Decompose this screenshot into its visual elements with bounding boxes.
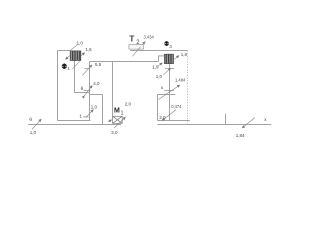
wire rail upper <box>130 50 187 52</box>
svg-text:3: 3 <box>169 44 172 50</box>
wire bus right <box>158 124 272 126</box>
resistor R2 <box>164 54 173 63</box>
wire M1 feeder <box>112 62 114 117</box>
arrow into M1 left <box>108 120 112 122</box>
source PHI1 <box>62 63 71 72</box>
transformer T2 <box>129 34 144 50</box>
wire bus left <box>28 124 121 126</box>
svg-text:0,474: 0,474 <box>171 104 182 109</box>
wire connector node theta <box>75 92 90 94</box>
wire R2 drop <box>169 64 171 121</box>
wire box2 top edge <box>158 94 176 96</box>
tick node C <box>83 116 89 118</box>
load arrow 1,484 <box>159 78 186 100</box>
svg-text:1,0: 1,0 <box>77 40 84 45</box>
svg-text:2,0: 2,0 <box>125 101 132 106</box>
svg-text:1,0: 1,0 <box>156 74 163 79</box>
svg-text:1,84: 1,84 <box>236 133 245 138</box>
wire connector to drop2 <box>90 94 103 96</box>
wire rail lower <box>90 61 159 63</box>
svg-text:1: 1 <box>121 110 124 116</box>
tick node D <box>165 68 174 70</box>
svg-text:2,0: 2,0 <box>159 115 166 120</box>
svg-text:2,0: 2,0 <box>111 130 118 135</box>
wire box1 left edge <box>57 51 59 121</box>
arrow 1,6 of R1 <box>81 47 92 56</box>
svg-text:1,6: 1,6 <box>85 47 92 52</box>
label 1,0 of R1 with leader <box>70 40 83 51</box>
arrow 1,9 to R2 <box>152 63 162 69</box>
svg-text:1,484: 1,484 <box>175 78 186 83</box>
slash below R1 <box>73 61 80 69</box>
wire box2 left edge <box>157 95 159 121</box>
wire box1 bottom edge <box>58 120 91 122</box>
svg-text:1,0: 1,0 <box>30 130 37 135</box>
tick node B <box>84 89 91 91</box>
load arrow 2,0 through M1 <box>111 117 125 135</box>
svg-text:5,5: 5,5 <box>95 62 102 67</box>
svg-text:1,0: 1,0 <box>91 104 98 109</box>
motor M1 label <box>114 101 132 116</box>
load arrow 0,474 into box2 corner <box>159 104 182 121</box>
wire box1 top edge <box>58 50 71 52</box>
wire step to R2 <box>159 56 165 62</box>
wire drop2 to bus <box>102 95 104 125</box>
svg-text:T: T <box>129 34 135 44</box>
tick node A <box>84 68 90 70</box>
load arrow 1,0 left <box>86 104 98 117</box>
resistor R1 <box>70 51 81 61</box>
output arrow 1,84 on right bus <box>236 118 255 138</box>
load arrow 5,5 <box>82 62 101 75</box>
wire box2 bottom edge <box>158 120 190 122</box>
wire right edge dotted <box>187 51 189 125</box>
wire R1 drop <box>74 61 76 93</box>
input arrow theta 1,0 on left bus <box>29 117 41 135</box>
arrow 3,434 of T2 <box>142 34 155 45</box>
arrow from R1 to PHI1 <box>66 55 71 59</box>
svg-text:1,9: 1,9 <box>152 64 159 69</box>
wire stub on bus <box>225 114 227 125</box>
motor M1 crossed box <box>113 116 123 123</box>
load arrow 4,0 <box>84 81 100 96</box>
source PHI3 <box>164 41 172 50</box>
arrow 1,8 of R2 <box>174 52 187 59</box>
svg-text:M: M <box>114 108 120 115</box>
tick node E <box>164 90 174 92</box>
svg-text:3,434: 3,434 <box>144 34 155 39</box>
slash through T2 <box>132 47 140 57</box>
svg-text:4,0: 4,0 <box>93 81 100 86</box>
svg-text:1,8: 1,8 <box>181 52 188 57</box>
svg-text:1: 1 <box>67 66 70 72</box>
wire box1 right edge <box>89 62 91 121</box>
load arrow 1,0 right <box>156 68 171 79</box>
